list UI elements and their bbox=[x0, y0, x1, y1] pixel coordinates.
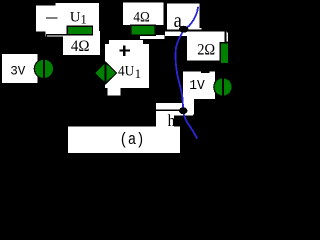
wire node a horizontal bbox=[167, 30, 227, 32]
wire from R1 left to 3V source bbox=[46, 34, 67, 35]
label box for -U1 (left) bbox=[36, 5, 63, 31]
wire down to R3 bbox=[225, 32, 227, 43]
white strip A right of a box bbox=[185, 28, 202, 30]
voltage source V1 3V bbox=[34, 59, 53, 78]
label minus sign of U1 bbox=[46, 17, 58, 18]
label box 3V bbox=[2, 54, 38, 83]
svg-text:h: h bbox=[168, 111, 176, 130]
resistor R1 4ohm horizontal bbox=[67, 26, 92, 34]
svg-text:4Ω: 4Ω bbox=[71, 38, 90, 55]
svg-text:1V: 1V bbox=[189, 78, 205, 94]
svg-text:1: 1 bbox=[81, 12, 87, 26]
white tick right of vertical wire bbox=[226, 32, 228, 41]
svg-text:a: a bbox=[174, 8, 183, 32]
node a junction dot bbox=[179, 26, 189, 33]
wire stub top of 1V box bbox=[201, 71, 210, 73]
svg-text:3V: 3V bbox=[10, 65, 26, 79]
label plus sign of dependent source bbox=[123, 45, 126, 56]
blue added wire from node a to node h bbox=[176, 8, 198, 139]
wire stub right of U1 box bbox=[99, 19, 102, 21]
label box 4ohm (below R1) bbox=[63, 31, 100, 55]
label box 1V bbox=[183, 71, 215, 99]
svg-text:U: U bbox=[70, 10, 81, 26]
label box U1 (top) bbox=[56, 3, 100, 36]
label box (a) caption bbox=[68, 126, 180, 153]
label box 2ohm bbox=[187, 36, 226, 61]
white patch right of node h bbox=[184, 98, 195, 115]
svg-text:1: 1 bbox=[135, 66, 142, 81]
white strip B under a box bbox=[165, 32, 227, 36]
white strip under R2 bbox=[140, 35, 164, 39]
label box +4U1 (dependent source) bbox=[109, 40, 143, 52]
resistor R2 4ohm horizontal bbox=[131, 25, 156, 35]
node h junction dot bbox=[179, 107, 187, 114]
label box node h bbox=[156, 103, 193, 115]
svg-text:(a): (a) bbox=[120, 131, 145, 150]
label box node a bbox=[167, 3, 200, 33]
label box 4ohm (top middle) bbox=[123, 2, 164, 25]
wire node h horizontal bbox=[156, 109, 183, 111]
voltage source V2 1V bbox=[214, 78, 232, 96]
resistor R3 2ohm vertical bbox=[220, 43, 228, 64]
svg-text:4Ω: 4Ω bbox=[133, 10, 150, 26]
dependent source D1 4U1 diamond bbox=[94, 62, 116, 83]
svg-text:4U: 4U bbox=[118, 64, 134, 80]
svg-text:2Ω: 2Ω bbox=[197, 42, 215, 59]
wire backing strip under -U1 box bbox=[46, 32, 63, 37]
